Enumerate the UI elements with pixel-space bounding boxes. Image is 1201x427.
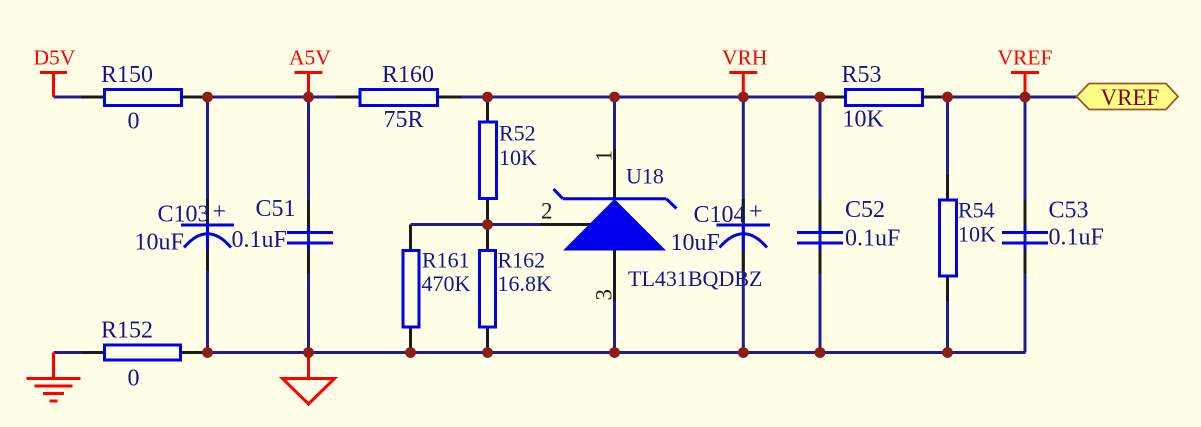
svg-text:VREF: VREF — [998, 46, 1053, 70]
resistor R53 — [826, 62, 942, 133]
top plate of C53 — [1002, 231, 1048, 234]
svg-text:R152: R152 — [101, 318, 153, 344]
pin top of R54 — [946, 175, 949, 200]
pin bottom of R162 — [486, 327, 489, 353]
junction at U18 cathode node (top) — [609, 92, 620, 103]
curved plate of C103 — [184, 234, 231, 248]
pin 1 cathode (top) — [613, 149, 616, 199]
capacitor C51 — [232, 196, 334, 274]
positive plate of C103 — [181, 224, 234, 227]
bottom plate of C51 — [287, 242, 333, 245]
svg-text:10uF: 10uF — [135, 230, 184, 256]
pin right of R160 — [438, 96, 463, 99]
pin bottom of C53 — [1024, 249, 1027, 274]
pin bottom of C104 — [742, 250, 745, 271]
junction at A5V node (top) — [303, 92, 314, 103]
pin right of R150 — [181, 96, 204, 99]
pin left of R150 — [81, 96, 105, 99]
body of R150 — [105, 90, 182, 106]
pin 2 reference (left) — [540, 223, 592, 226]
body of R54 — [940, 200, 957, 276]
svg-text:R54: R54 — [958, 198, 995, 223]
svg-text:C103: C103 — [158, 202, 210, 228]
pin bottom of C52 — [819, 249, 822, 274]
port VREF — [1077, 84, 1179, 111]
svg-text:16.8K: 16.8K — [498, 271, 553, 296]
junction at R162 bottom node — [482, 347, 493, 358]
svg-text:10K: 10K — [499, 145, 537, 170]
resistor R162 — [480, 225, 553, 353]
svg-text:470K: 470K — [422, 271, 471, 296]
capacitor C52 — [797, 197, 900, 274]
svg-text:+: + — [749, 199, 763, 225]
bottom plate of C53 — [1002, 242, 1048, 245]
pin left of R53 — [826, 96, 846, 99]
junction at R54 bottom node — [942, 347, 953, 358]
wire bottom rail (ground bus) — [208, 351, 1026, 354]
svg-text:0: 0 — [128, 109, 140, 135]
svg-text:C51: C51 — [256, 196, 296, 222]
pin top of C52 — [819, 200, 822, 227]
wire C52 column — [819, 97, 822, 353]
svg-text:0.1uF: 0.1uF — [845, 226, 900, 252]
junction at R150/C103 node (top) — [202, 92, 213, 103]
ground triangle symbol (under A5V column) — [283, 353, 335, 405]
resistor R160 — [336, 62, 463, 133]
junction at VREF node (top) — [1020, 92, 1031, 103]
wire top rail (net VRH/A5V bus) — [54, 96, 1077, 99]
body of R161 — [403, 251, 419, 328]
svg-text:10uF: 10uF — [671, 230, 720, 256]
wire VRH/C104 column — [742, 97, 745, 353]
svg-text:R161: R161 — [422, 248, 470, 273]
pin top of C53 — [1024, 200, 1027, 227]
svg-text:+: + — [213, 199, 227, 225]
bottom plate of C52 — [797, 242, 843, 245]
pin bottom of R161 — [409, 327, 412, 353]
pin bottom of R52 — [486, 199, 489, 225]
pin bottom of C51 — [307, 249, 310, 274]
resistor R161 — [403, 225, 471, 353]
wire C103 column — [206, 97, 209, 353]
svg-text:C104: C104 — [694, 202, 746, 228]
junction at R161 bottom node — [405, 347, 416, 358]
svg-text:VREF: VREF — [1101, 85, 1160, 110]
wire from ground corner to R152 left pin — [54, 351, 105, 354]
svg-text:D5V: D5V — [34, 46, 76, 70]
junction at VRH node (top) — [738, 92, 749, 103]
resistor R54 — [940, 175, 997, 301]
capacitor C53 — [1002, 198, 1104, 274]
pin top of C104 — [742, 199, 745, 224]
wire node 2 horizontal (R161/R162 to TL431 ref) — [411, 223, 546, 226]
capacitor C103 (polarized) — [135, 199, 235, 271]
svg-text:R160: R160 — [382, 62, 434, 88]
pin left of R152 — [81, 351, 105, 354]
pin top of C103 — [206, 199, 209, 224]
svg-text:0: 0 — [128, 366, 140, 392]
svg-text:R53: R53 — [842, 62, 882, 88]
svg-text:10K: 10K — [958, 222, 996, 247]
svg-text:3: 3 — [592, 289, 617, 301]
junction at C103 bottom node — [202, 347, 213, 358]
shunt regulator U18 TL431 — [540, 149, 762, 301]
pin right of R152 — [181, 351, 205, 354]
svg-text:R52: R52 — [499, 121, 536, 146]
wire TL431 column — [613, 97, 616, 353]
body of R52 — [480, 122, 497, 199]
svg-text:2: 2 — [541, 199, 553, 224]
pin top of C51 — [307, 200, 310, 227]
svg-text:0.1uF: 0.1uF — [232, 227, 287, 253]
body of R162 — [480, 251, 496, 328]
pin top of R162 — [486, 225, 489, 251]
svg-text:VRH: VRH — [722, 46, 767, 70]
pin left of R160 — [336, 96, 361, 99]
triangle body of U18 — [563, 199, 666, 251]
junction at C104 bottom node — [738, 347, 749, 358]
svg-text:C52: C52 — [845, 197, 885, 223]
pin bottom of R54 — [946, 276, 949, 301]
svg-text:0.1uF: 0.1uF — [1049, 225, 1104, 251]
svg-text:75R: 75R — [384, 107, 424, 133]
body of R160 — [360, 90, 438, 106]
junction at R54 top node — [942, 92, 953, 103]
positive plate of C104 — [717, 224, 771, 227]
junction at C52 top node — [815, 92, 826, 103]
svg-text:R150: R150 — [101, 62, 153, 88]
pin right of R53 — [923, 96, 942, 99]
cathode bar of U18 — [563, 197, 666, 200]
ground earth symbol (bottom left) — [27, 353, 81, 402]
pin top of R52 — [486, 97, 489, 122]
wire VREF/C53 column — [1024, 97, 1027, 353]
body of R152 — [105, 345, 181, 360]
pin 3 anode (bottom) — [613, 251, 616, 302]
body of R53 — [846, 90, 923, 106]
svg-text:C53: C53 — [1049, 198, 1089, 224]
power symbol D5V — [34, 46, 76, 98]
pin bottom of C103 — [206, 250, 209, 271]
svg-text:10K: 10K — [843, 107, 885, 133]
svg-text:R162: R162 — [498, 248, 546, 273]
power symbol VREF — [998, 46, 1053, 98]
junction at C52 bottom node — [815, 347, 826, 358]
svg-text:1: 1 — [592, 150, 617, 162]
junction at R52 top node — [482, 92, 493, 103]
wire R54 column — [946, 97, 949, 353]
resistor R52 — [480, 97, 538, 225]
top plate of C52 — [797, 231, 843, 234]
curved plate of C104 — [720, 234, 768, 248]
wire A5V/C51 column — [307, 97, 310, 353]
power symbol VRH — [722, 46, 767, 98]
svg-text:U18: U18 — [626, 164, 664, 189]
resistor R152 — [81, 318, 204, 392]
top plate of C51 — [287, 231, 333, 234]
capacitor C104 (polarized) — [671, 199, 771, 271]
junction at U18 anode bottom node — [609, 347, 620, 358]
junction at ground node (bottom A5V column) — [303, 347, 314, 358]
junction at node 2 (R52/R162/U18 ref) — [482, 219, 493, 230]
pin top of R161 — [409, 225, 412, 251]
power symbol A5V — [289, 46, 331, 98]
svg-text:A5V: A5V — [289, 46, 331, 70]
resistor R150 — [81, 62, 204, 135]
